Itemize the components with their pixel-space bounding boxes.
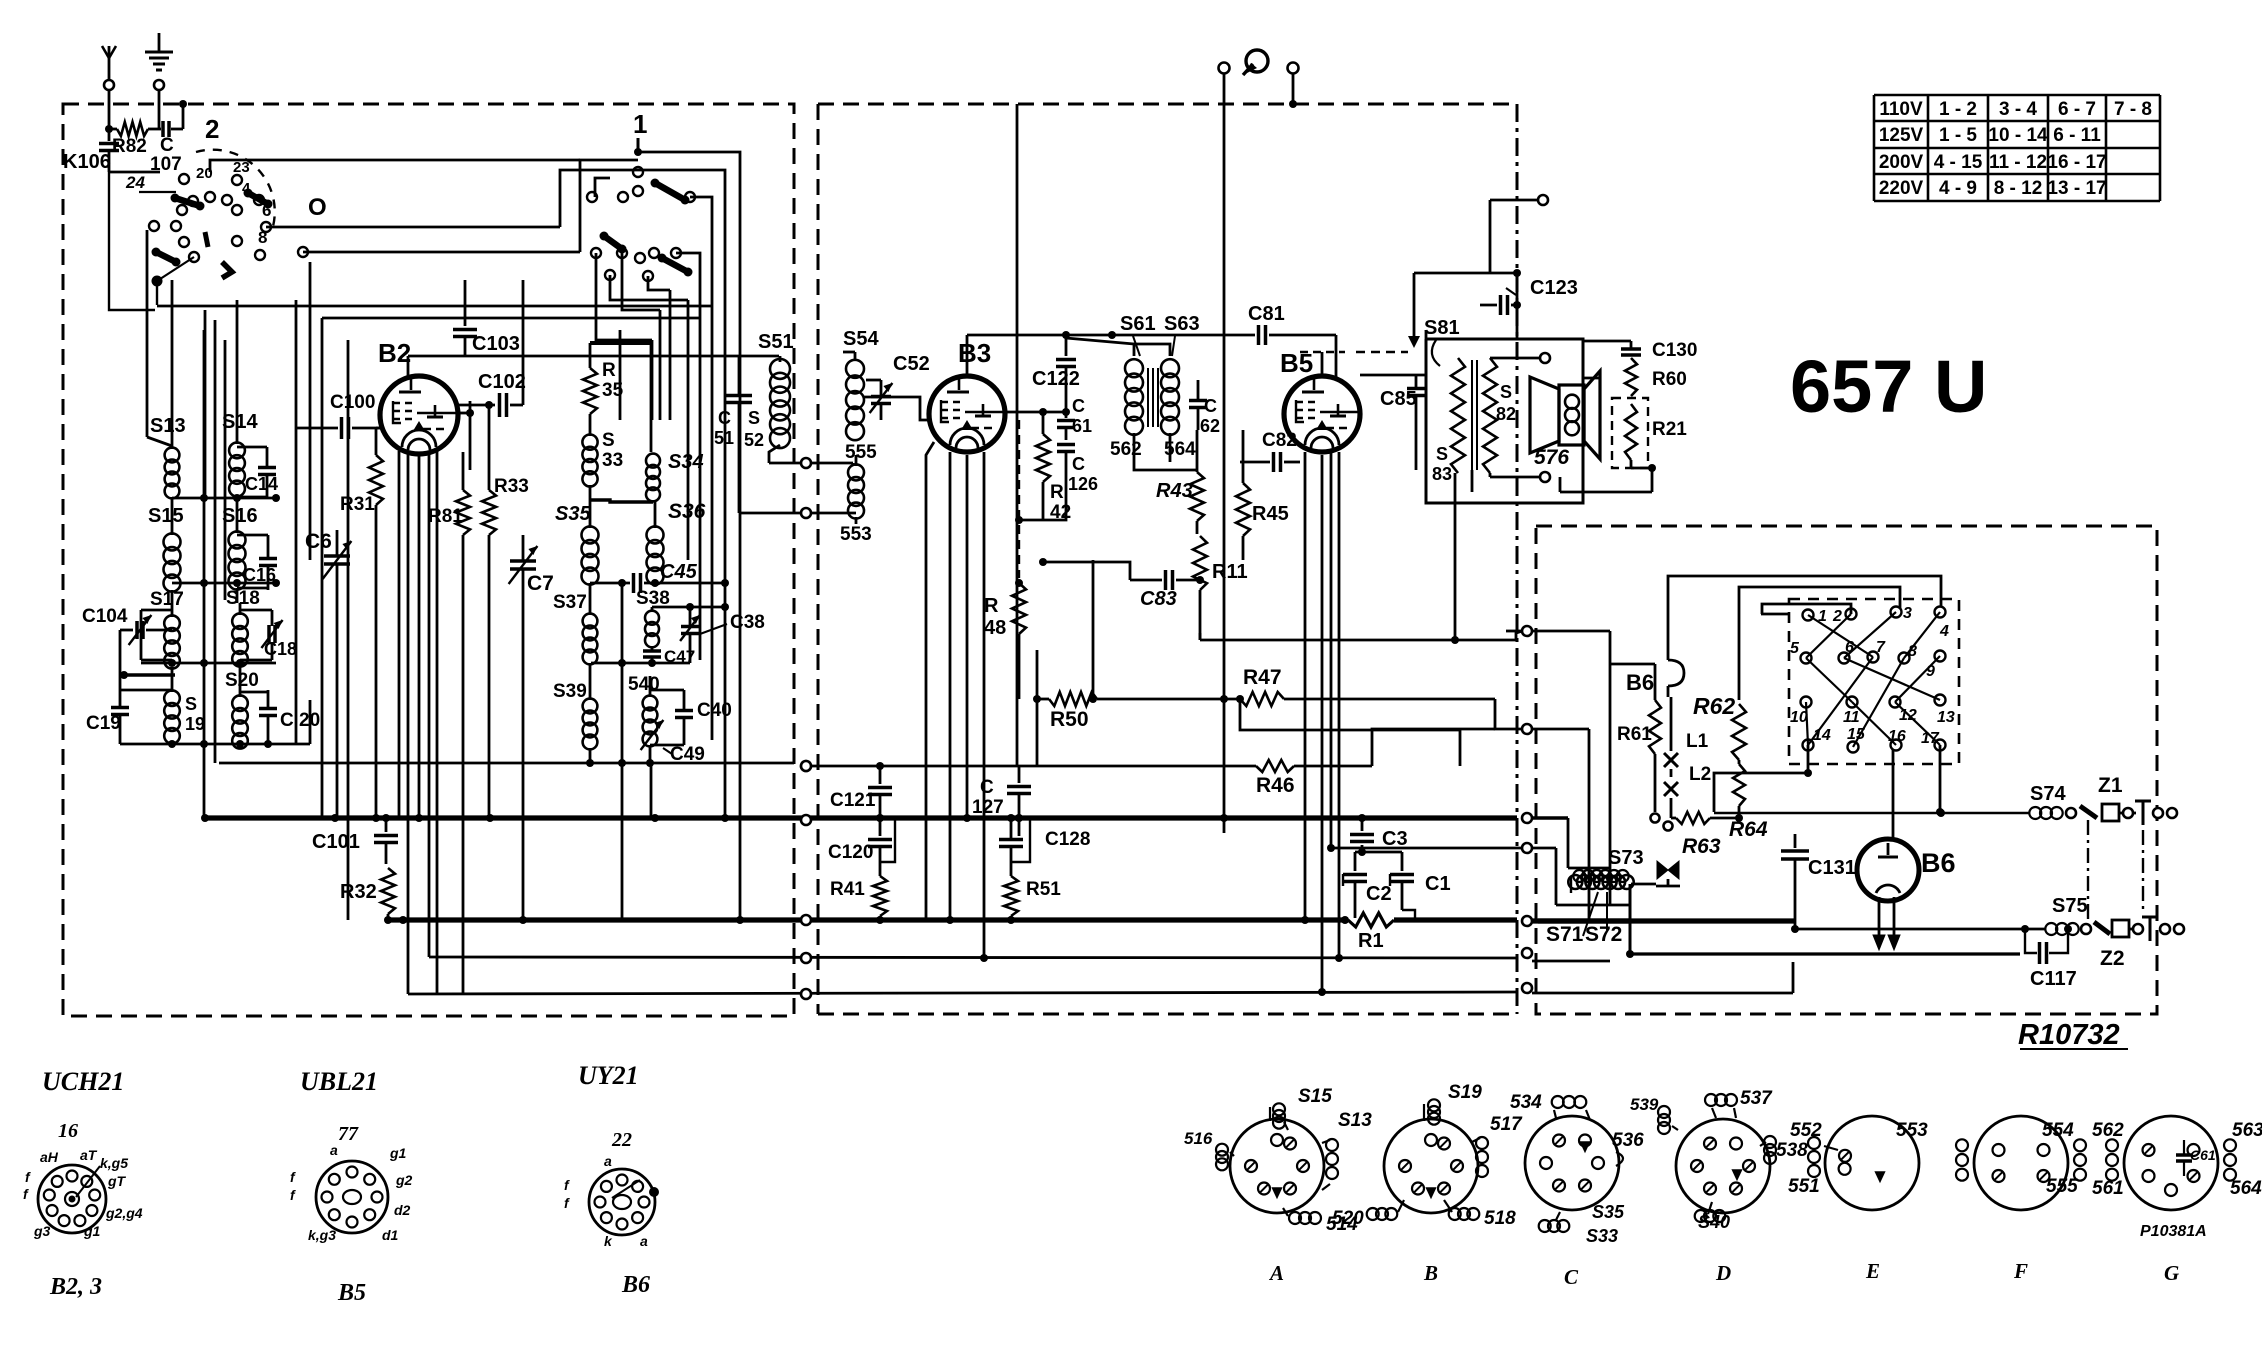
wire sw1 vert n	[699, 300, 702, 660]
wire sw1 frame f	[676, 253, 700, 300]
svg-text:517: 517	[1490, 1114, 1523, 1135]
capacitor C82	[1240, 430, 1300, 472]
wire sw1 vert q	[739, 330, 742, 920]
svg-text:O: O	[308, 194, 327, 221]
svg-text:P10381A: P10381A	[2140, 1223, 2207, 1240]
svg-text:R64: R64	[1729, 818, 1768, 841]
svg-text:C: C	[160, 135, 174, 156]
wire sw2 c	[303, 251, 580, 254]
svg-text:R21: R21	[1652, 419, 1687, 440]
svg-text:555: 555	[845, 442, 877, 463]
svg-text:g3: g3	[33, 1223, 51, 1239]
tube B6 rect	[1857, 839, 1956, 901]
resistor R61	[1610, 664, 1661, 823]
svg-text:B: B	[1423, 1261, 1438, 1285]
terminal column x1527	[1522, 724, 1532, 993]
wire spk top right	[1583, 377, 1600, 380]
wire contact10 link	[1714, 745, 1812, 812]
resistor R48	[984, 583, 1026, 699]
right power dashed box	[1536, 526, 2157, 1014]
fuse Z2	[2100, 920, 2143, 970]
svg-text:C38: C38	[730, 612, 765, 633]
wire rb y818 step	[1532, 818, 1610, 868]
capacitor C117	[2021, 925, 2077, 990]
svg-text:562: 562	[2092, 1120, 2124, 1141]
wire rb y961	[1532, 960, 1610, 963]
wire B5 solid link	[1360, 374, 1426, 377]
wire coil bottom bus	[120, 700, 310, 748]
svg-text:552: 552	[1790, 1120, 1822, 1141]
svg-text:7 - 8: 7 - 8	[2114, 99, 2152, 120]
svg-text:C131: C131	[1808, 857, 1856, 879]
wire frame top A	[1668, 576, 1941, 656]
wire plate bus y335	[967, 331, 1255, 339]
svg-text:8 - 12: 8 - 12	[1994, 178, 2043, 199]
bus heater thick	[390, 915, 1517, 925]
svg-text:C81: C81	[1248, 303, 1285, 325]
svg-text:S72: S72	[1585, 923, 1622, 946]
wire left col f	[295, 300, 298, 744]
svg-text:B3: B3	[958, 338, 991, 368]
thermal switch S73	[1608, 847, 1680, 886]
svg-text:C128: C128	[1045, 829, 1090, 850]
wire left col i	[347, 340, 350, 920]
variable capacitor C49 arrow	[641, 720, 705, 765]
svg-text:S74: S74	[2030, 783, 2066, 805]
svg-text:C117: C117	[2030, 968, 2077, 990]
capacitor C3	[1350, 814, 1408, 850]
wire R21 down	[1560, 464, 1656, 492]
svg-text:576: 576	[1534, 446, 1569, 469]
svg-text:554: 554	[2042, 1120, 2074, 1141]
svg-text:C40: C40	[697, 700, 732, 721]
svg-text:R: R	[984, 595, 999, 617]
svg-text:3 - 4: 3 - 4	[1999, 99, 2037, 120]
coil S39	[553, 678, 597, 763]
svg-text:51: 51	[714, 428, 734, 448]
label contact 4	[242, 180, 251, 197]
wire sw1 vert p	[721, 320, 729, 818]
lamp symbol	[1243, 50, 1268, 75]
svg-text:D: D	[1715, 1261, 1731, 1285]
resistor R31	[340, 428, 383, 818]
svg-text:C52: C52	[893, 353, 930, 375]
rotary switch 2	[149, 150, 308, 305]
svg-text:S14: S14	[222, 411, 258, 433]
coil S14	[222, 300, 258, 508]
label contact 24	[125, 173, 145, 192]
svg-text:77: 77	[338, 1123, 359, 1145]
svg-text:B5: B5	[1280, 348, 1313, 378]
svg-text:C85: C85	[1380, 388, 1417, 410]
resistor R47	[1236, 666, 1522, 729]
variable capacitor C52	[866, 353, 930, 420]
svg-text:R50: R50	[1050, 708, 1089, 731]
svg-text:R10732: R10732	[2018, 1019, 2120, 1051]
wire sw1 frame j	[648, 276, 670, 290]
coil S35	[555, 500, 599, 600]
capacitor C123	[1480, 273, 1578, 339]
svg-text:R51: R51	[1026, 879, 1061, 900]
svg-text:200V: 200V	[1879, 152, 1924, 173]
svg-text:2: 2	[205, 114, 219, 144]
dashdot link plugs	[2142, 830, 2144, 912]
svg-text:2: 2	[1832, 608, 1842, 625]
svg-text:S34: S34	[668, 451, 704, 473]
wire IF bottom	[1134, 433, 1198, 470]
svg-text:C14: C14	[245, 474, 278, 494]
svg-text:C 20: C 20	[280, 710, 320, 731]
svg-text:B6: B6	[621, 1272, 650, 1298]
svg-text:555: 555	[2046, 1176, 2078, 1197]
wire spk cone top	[1425, 330, 1428, 339]
wire mains L down	[1220, 104, 1228, 833]
wire sw1 vert r	[651, 340, 654, 420]
svg-text:C82: C82	[1262, 430, 1297, 451]
svg-text:S63: S63	[1164, 313, 1200, 335]
capacitor C104	[82, 606, 172, 660]
svg-text:k,g5: k,g5	[100, 1155, 128, 1171]
wire mid a	[1039, 558, 1130, 580]
socket B	[1332, 1082, 1523, 1285]
coil S18	[226, 588, 260, 678]
wire to term200	[1408, 195, 1548, 348]
svg-text:S17: S17	[150, 589, 184, 610]
svg-text:R82: R82	[112, 136, 147, 157]
resistor R11	[1193, 536, 1248, 640]
svg-text:aH: aH	[40, 1149, 59, 1165]
wire sw1 vert k	[659, 310, 662, 420]
wire xfmr bottom leads	[1451, 470, 1472, 644]
svg-text:16 - 17: 16 - 17	[2047, 152, 2106, 173]
svg-text:S33: S33	[1586, 1226, 1618, 1246]
variable capacitor C6	[305, 530, 351, 818]
wire B5 pins	[1305, 452, 1339, 992]
svg-text:S35: S35	[1592, 1202, 1625, 1222]
resistor R1	[1341, 913, 1394, 952]
svg-text:110V: 110V	[1879, 99, 1923, 120]
capacitor C45	[590, 561, 725, 593]
node C103 junction	[619, 330, 622, 420]
svg-text:518: 518	[1484, 1208, 1516, 1229]
transformer S81 box	[1424, 317, 1583, 503]
svg-text:S: S	[602, 430, 615, 451]
wire osc column	[618, 583, 626, 920]
svg-text:R62: R62	[1693, 693, 1735, 719]
svg-text:C19: C19	[86, 713, 121, 734]
svg-text:C103: C103	[472, 333, 520, 355]
svg-text:48: 48	[984, 617, 1006, 639]
wire 24 lead	[139, 191, 176, 193]
wire xfmr to C130	[1583, 341, 1631, 348]
coil S34	[646, 451, 704, 502]
wire C2C1 bottom	[1355, 882, 1415, 918]
capacitor C126	[1057, 445, 1098, 495]
svg-text:g1: g1	[83, 1223, 101, 1239]
svg-text:4: 4	[242, 180, 251, 197]
tube B3	[929, 338, 1005, 452]
resistor R62	[1693, 693, 1746, 760]
svg-text:540: 540	[628, 674, 660, 695]
resistor R35	[583, 360, 624, 414]
svg-text:R60: R60	[1652, 369, 1687, 390]
coil S62	[1110, 359, 1143, 460]
svg-text:C7: C7	[527, 572, 554, 595]
coil S64	[1161, 359, 1196, 460]
svg-text:R63: R63	[1682, 835, 1721, 858]
wire sw1 frame e	[690, 197, 712, 310]
wire frame top B	[1739, 587, 1900, 700]
svg-text:S19: S19	[1448, 1082, 1482, 1103]
wire coil bus 663	[141, 659, 276, 667]
wire row 992	[408, 988, 1517, 999]
svg-text:S73: S73	[1608, 847, 1644, 869]
svg-text:C130: C130	[1652, 340, 1697, 361]
label S61	[1120, 313, 1156, 356]
svg-text:8: 8	[258, 228, 267, 247]
resistor R45	[1236, 430, 1289, 560]
wire sw2 d	[266, 226, 560, 229]
capacitor C127	[972, 766, 1031, 836]
socket D	[1630, 1088, 1808, 1285]
wire C19 thick lead	[120, 671, 175, 679]
svg-text:6 - 7: 6 - 7	[2058, 99, 2096, 120]
speaker 576	[1530, 371, 1600, 469]
svg-text:R41: R41	[830, 879, 865, 900]
svg-text:R11: R11	[1212, 561, 1248, 583]
svg-text:g2,g4: g2,g4	[105, 1205, 143, 1221]
wire sw1 frame g	[610, 275, 688, 300]
svg-text:C6: C6	[305, 530, 332, 553]
svg-text:S: S	[1436, 444, 1448, 464]
wire rb y921 thick	[1532, 918, 1795, 923]
wire top row 306	[157, 305, 712, 308]
wire rb y729	[1532, 729, 1589, 921]
capacitor C121	[830, 762, 892, 811]
svg-text:23: 23	[233, 159, 250, 176]
svg-text:R47: R47	[1243, 666, 1282, 689]
svg-text:A: A	[1268, 1261, 1284, 1285]
coil S55	[840, 442, 877, 545]
svg-text:S51: S51	[758, 331, 794, 353]
wire sw2 b	[109, 172, 155, 310]
node top-left	[105, 100, 187, 133]
wire sw2 a	[210, 160, 580, 172]
svg-text:11 - 12: 11 - 12	[1989, 152, 2047, 173]
svg-text:C: C	[1564, 1265, 1579, 1289]
svg-text:657 U: 657 U	[1790, 345, 1987, 428]
capacitor C19	[86, 688, 172, 744]
svg-text:C: C	[980, 777, 994, 798]
wire row 763	[219, 759, 794, 767]
terminal spk top	[1490, 353, 1550, 363]
wire S51 to term	[769, 458, 811, 468]
wire B6 arrows row	[1791, 925, 2046, 933]
svg-text:S18: S18	[226, 588, 260, 609]
svg-text:g1: g1	[389, 1145, 407, 1161]
svg-text:C101: C101	[312, 831, 360, 853]
svg-text:S39: S39	[553, 681, 587, 702]
label switch 2	[205, 114, 219, 144]
svg-text:C45: C45	[660, 561, 698, 583]
capacitor C62	[1189, 380, 1220, 436]
svg-text:R45: R45	[1252, 503, 1289, 525]
svg-text:C100: C100	[330, 392, 375, 413]
coil S36	[647, 500, 706, 585]
svg-text:C120: C120	[828, 842, 873, 863]
svg-text:R46: R46	[1256, 774, 1295, 797]
capacitor C16	[237, 535, 277, 590]
svg-text:S: S	[748, 408, 760, 428]
capacitor C14	[237, 447, 278, 497]
svg-text:S20: S20	[225, 670, 259, 691]
svg-text:4 - 9: 4 - 9	[1939, 178, 1977, 199]
tube B5	[1280, 348, 1360, 452]
crossbar switch S	[1790, 605, 1955, 753]
terminal gap y766	[801, 761, 811, 771]
resistor R43	[1156, 430, 1204, 534]
svg-text:F: F	[2013, 1259, 2028, 1283]
svg-text:S54: S54	[843, 328, 879, 350]
svg-text:11: 11	[1843, 709, 1860, 726]
wire C127 column top	[1016, 104, 1019, 766]
tube base UCH21	[23, 1067, 143, 1300]
coil S20	[225, 670, 259, 749]
svg-text:C123: C123	[1530, 277, 1578, 299]
coil S15	[148, 505, 184, 605]
wire sw1 frame i	[596, 253, 652, 340]
wire left col h	[321, 318, 324, 818]
capacitor C51	[714, 356, 764, 513]
wire frame mid C	[1761, 613, 1790, 616]
svg-text:R31: R31	[340, 494, 375, 515]
wire S52 term2	[739, 508, 856, 518]
svg-text:52: 52	[744, 430, 764, 450]
wire S34 top thick link	[590, 343, 651, 452]
svg-text:R81: R81	[428, 506, 463, 527]
svg-text:L2: L2	[1689, 764, 1711, 785]
svg-text:S16: S16	[222, 505, 258, 527]
tube B6 arrows	[1873, 897, 1900, 950]
coil S37	[553, 592, 597, 678]
bus earth thick	[203, 814, 1517, 825]
wire sw1 frame c	[638, 152, 740, 330]
wire B2 pin extra	[399, 451, 429, 994]
coil S13	[150, 280, 186, 510]
resistor R64	[1729, 760, 1768, 841]
capacitor C1	[1355, 845, 1451, 895]
svg-text:33: 33	[602, 450, 623, 471]
svg-text:539: 539	[1630, 1095, 1659, 1114]
winding S83	[1432, 358, 1465, 484]
resistor R63	[1664, 812, 1744, 858]
coil S16	[222, 505, 258, 603]
svg-text:C3: C3	[1382, 828, 1408, 850]
wire left col a	[201, 310, 209, 822]
wire sw1 vert o	[711, 310, 714, 740]
svg-text:538: 538	[1776, 1140, 1808, 1161]
wire IF core	[1148, 368, 1158, 427]
socket F	[1896, 1116, 2086, 1283]
crossbar dashed box	[1789, 599, 1959, 764]
svg-text:S81: S81	[1424, 317, 1460, 339]
wire sw1 frame d	[560, 170, 725, 320]
svg-text:C: C	[1072, 396, 1085, 416]
svg-text:R: R	[1050, 482, 1064, 503]
label O	[308, 194, 327, 221]
lamp B6	[1626, 656, 1684, 697]
label S63	[1164, 313, 1200, 356]
wire rb y993	[1532, 962, 1793, 993]
svg-text:220V: 220V	[1879, 178, 1924, 199]
wire B5 cath row	[1327, 844, 1522, 852]
wire mid b	[1015, 470, 1066, 524]
svg-text:C1: C1	[1425, 873, 1451, 895]
tube B2	[378, 338, 458, 454]
svg-text:561: 561	[2092, 1178, 2124, 1199]
svg-text:L1: L1	[1686, 731, 1709, 752]
svg-text:564: 564	[2230, 1178, 2262, 1199]
svg-text:B6: B6	[1626, 670, 1654, 695]
svg-text:UY21: UY21	[578, 1061, 639, 1090]
svg-text:13 - 17: 13 - 17	[2047, 178, 2106, 199]
coil S19	[164, 680, 205, 744]
wire coil bus 498	[172, 494, 280, 502]
svg-text:10 - 14: 10 - 14	[1988, 125, 2048, 146]
svg-text:K106: K106	[63, 151, 111, 173]
svg-text:C: C	[1072, 454, 1085, 474]
wire row 957	[429, 953, 1517, 963]
resistor R46	[801, 729, 1495, 797]
svg-text:553: 553	[1896, 1120, 1928, 1141]
terminal mains L	[1219, 63, 1230, 105]
svg-text:536: 536	[1612, 1130, 1644, 1151]
resistor R21	[1612, 398, 1687, 468]
capacitor K106	[63, 129, 119, 173]
lamp L2	[1664, 764, 1711, 814]
socket G	[2092, 1116, 2262, 1285]
svg-text:aT: aT	[80, 1147, 98, 1163]
svg-text:gT: gT	[107, 1173, 127, 1189]
svg-text:a: a	[640, 1233, 648, 1249]
coil S40	[628, 674, 660, 763]
resistor R41	[830, 818, 895, 920]
svg-text:S: S	[185, 694, 197, 714]
svg-text:19: 19	[185, 714, 205, 734]
svg-text:C: C	[718, 408, 731, 428]
svg-text:125V: 125V	[1879, 125, 1924, 146]
fuse Z1	[2098, 774, 2136, 821]
svg-text:S37: S37	[553, 592, 587, 613]
resistor R50	[1033, 560, 1240, 766]
wire B2 plate top	[408, 356, 779, 378]
svg-text:126: 126	[1068, 474, 1098, 494]
capacitor C101	[312, 814, 398, 864]
svg-text:17: 17	[1921, 730, 1940, 747]
wire top row 318	[322, 317, 700, 320]
svg-text:6 - 11: 6 - 11	[2053, 125, 2101, 146]
svg-text:B5: B5	[337, 1280, 366, 1306]
wire left col c	[147, 230, 172, 446]
svg-text:1: 1	[633, 109, 647, 139]
svg-text:C: C	[1204, 396, 1217, 416]
wire left col e	[224, 340, 227, 600]
wire left col b	[214, 320, 217, 763]
capacitor C18	[240, 610, 297, 660]
resistor R51	[1004, 818, 1061, 920]
svg-text:S71: S71	[1546, 923, 1584, 946]
coil S74	[2029, 783, 2097, 819]
